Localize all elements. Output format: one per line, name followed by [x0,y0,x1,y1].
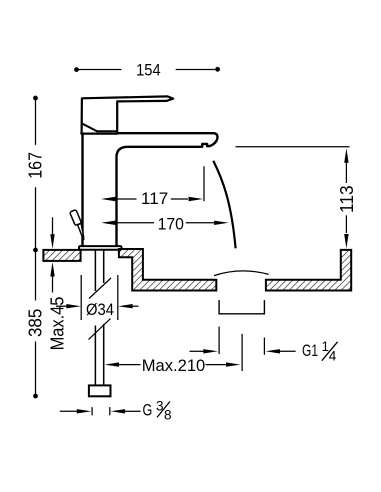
faucet body (trunk + spout outline) [81,133,217,246]
pipe break slash lower [89,319,111,340]
svg-text:G: G [143,400,153,419]
water stream curve [213,161,235,249]
faucet base flange [79,246,122,250]
dimension 167 end dots [33,96,38,101]
dimension Max.45 lower arrow [52,276,54,293]
svg-text:Ø34: Ø34 [86,300,114,319]
svg-text:4: 4 [329,349,337,364]
handle bevel edge lines [82,123,118,131]
drain waste flange arc [214,271,269,276]
dimension G1 1/4 extension lines [219,327,264,355]
dimension 113 extension line from spout [236,146,350,148]
dimension 117 line and arrows [116,166,205,201]
dimension 170 line and arrows [116,222,215,224]
countertop left section (hatched) [43,250,80,261]
dimension 154 end dots [74,67,79,72]
svg-text:8: 8 [164,407,172,422]
svg-text:167: 167 [26,152,46,179]
svg-text:113: 113 [337,185,357,213]
supply pipe (shank) [95,250,103,385]
svg-text:Max.210: Max.210 [142,356,206,375]
dimension O34 right arrow [132,305,139,307]
drain tailpiece bracket [219,300,264,314]
dimension G3/8 arrows and ticks [60,410,78,412]
dimension 385 end dot [33,394,38,399]
dimension 154 line [77,69,218,71]
basin left section: deck, left wall, floor to drain hole (hatched) [119,249,216,291]
svg-text:154: 154 [136,60,161,79]
basin right section: floor right of drain + right wall (hatched) [266,250,351,291]
dimension Max.45 upper arrow [52,217,54,235]
svg-text:117: 117 [141,189,168,208]
dimension O34 extension lines [81,275,118,320]
svg-text:Max.45: Max.45 [48,297,68,351]
svg-text:170: 170 [158,215,184,234]
pop-up waste rod knob [70,210,84,240]
supply hose end nut (G3/8) [89,385,111,396]
svg-text:G1: G1 [302,341,318,360]
dimension O34 left arrow [56,305,68,307]
dimension Max.210 line and arrows [119,364,226,366]
dimension G1 1/4 right arrow [280,350,296,352]
faucet handle lever [82,96,174,133]
dimension G1 1/4 left arrow [190,350,204,352]
dimension 113 line and arrows [345,162,347,233]
dimension 385 line [35,250,37,396]
drain centerline for Max.210 [241,334,243,371]
svg-text:385: 385 [26,309,46,337]
pipe break slash upper [89,278,111,299]
dimension 167 line [35,98,37,250]
